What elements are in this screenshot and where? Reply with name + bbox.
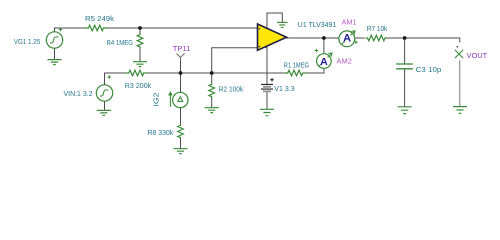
svg-text:VOUT: VOUT <box>467 51 488 60</box>
ground above op-amp <box>277 22 288 27</box>
wire: op-amp negative supply down to battery V1 <box>266 46 268 84</box>
wire: VG1 bottom to ground <box>54 48 56 59</box>
IG2 direction arrow <box>169 92 173 107</box>
svg-text:TP11: TP11 <box>173 44 191 53</box>
wire: R8 bottom to ground <box>180 139 182 149</box>
svg-text:R1 1MEG: R1 1MEG <box>284 60 310 69</box>
wire: R7 right to VOUT corner <box>386 38 460 43</box>
ground below R2 <box>205 108 219 113</box>
wire: battery bottom to ground <box>266 92 268 109</box>
wire: R2 top stub <box>211 73 213 84</box>
wire: R1 right to AM2 bottom bend <box>306 68 324 73</box>
junction node at TP11/IG2 <box>179 71 183 75</box>
wire: VIN bottom to ground <box>104 101 106 110</box>
ground of VG1 <box>48 60 62 65</box>
wire: riser to op-amp non-inverting input <box>212 48 258 73</box>
wire: C3 bottom to ground <box>404 69 406 107</box>
wire: op-amp output to AM1 <box>287 37 340 39</box>
wire: op-amp positive supply step to ground <box>267 13 282 28</box>
svg-text:R7 10k: R7 10k <box>367 24 388 33</box>
junction node at R5/R4 <box>138 26 142 30</box>
ground below C3 <box>398 107 412 114</box>
ground below R8 <box>174 149 188 154</box>
wire: R5 right to op-amp inverting input (top rail) <box>107 27 258 29</box>
svg-text:R4 1MEG: R4 1MEG <box>107 38 134 47</box>
svg-text:R2 100k: R2 100k <box>219 84 244 93</box>
junction node at R2/riser <box>210 71 214 75</box>
wire: IG2 bottom to R8 <box>180 108 182 125</box>
ground below VOUT <box>453 107 467 114</box>
svg-text:A: A <box>343 33 351 45</box>
resistor R2 <box>209 84 215 98</box>
svg-text:A: A <box>320 56 328 68</box>
wire: AM2 top stub to output rail junction <box>323 38 325 54</box>
output voltage pin VOUT <box>455 46 463 107</box>
svg-text:VG1 1.25: VG1 1.25 <box>14 37 40 46</box>
svg-text:R8 330k: R8 330k <box>147 128 173 137</box>
wire: R4 top stub <box>139 28 141 34</box>
svg-text:IG2: IG2 <box>152 93 161 107</box>
wire: C3 top stub <box>404 38 406 64</box>
junction node at output/AM2 <box>322 36 326 40</box>
voltage source VG1 <box>46 28 62 49</box>
battery V1 <box>261 84 273 91</box>
svg-text:AM2: AM2 <box>337 57 352 66</box>
wire: TP11 stub <box>180 60 182 73</box>
junction node at R7/C3 <box>403 36 407 40</box>
wire: IG2 top stub <box>180 73 182 92</box>
svg-text:VIN:1 3.2: VIN:1 3.2 <box>64 89 93 98</box>
wire: VG1 top lead to R5 (top rail left) <box>55 28 85 32</box>
svg-text:R3 200k: R3 200k <box>125 81 152 90</box>
test point TP11 <box>176 53 184 61</box>
current source IG2 <box>173 92 188 107</box>
ground below R4 <box>133 62 147 67</box>
wire: AM1 right to R7 <box>355 37 365 39</box>
wire: R2 bottom to ground <box>211 98 213 108</box>
capacitor C3 <box>396 64 413 69</box>
op-amp U1 TLV3491 <box>258 24 287 50</box>
resistor R8 <box>178 125 184 139</box>
battery V1 plus sign <box>270 78 274 82</box>
svg-text:U1 TLV3491: U1 TLV3491 <box>298 20 336 29</box>
resistor R1 <box>285 70 306 76</box>
ammeter AM2 <box>315 49 332 69</box>
svg-text:C3 10p: C3 10p <box>416 65 442 74</box>
resistor R4 <box>137 34 143 48</box>
op-amp input marks <box>259 28 267 48</box>
ammeter AM1 <box>339 31 358 47</box>
resistor R3 <box>126 70 148 76</box>
resistor R7 <box>366 35 387 41</box>
wire: main rail R3 to R1 (passes battery riser) <box>148 72 286 74</box>
svg-text:V1 3.3: V1 3.3 <box>274 84 294 93</box>
ground below battery V1 <box>260 109 274 115</box>
voltage source VIN <box>96 75 112 101</box>
resistor R5 <box>85 25 108 31</box>
wire: R4 bottom stub to ground <box>139 48 141 62</box>
wire: VIN top lead and main rail to R3 <box>105 73 127 85</box>
ground of VIN <box>97 110 111 115</box>
svg-text:AM1: AM1 <box>342 17 357 26</box>
svg-text:R5 249k: R5 249k <box>85 14 114 23</box>
